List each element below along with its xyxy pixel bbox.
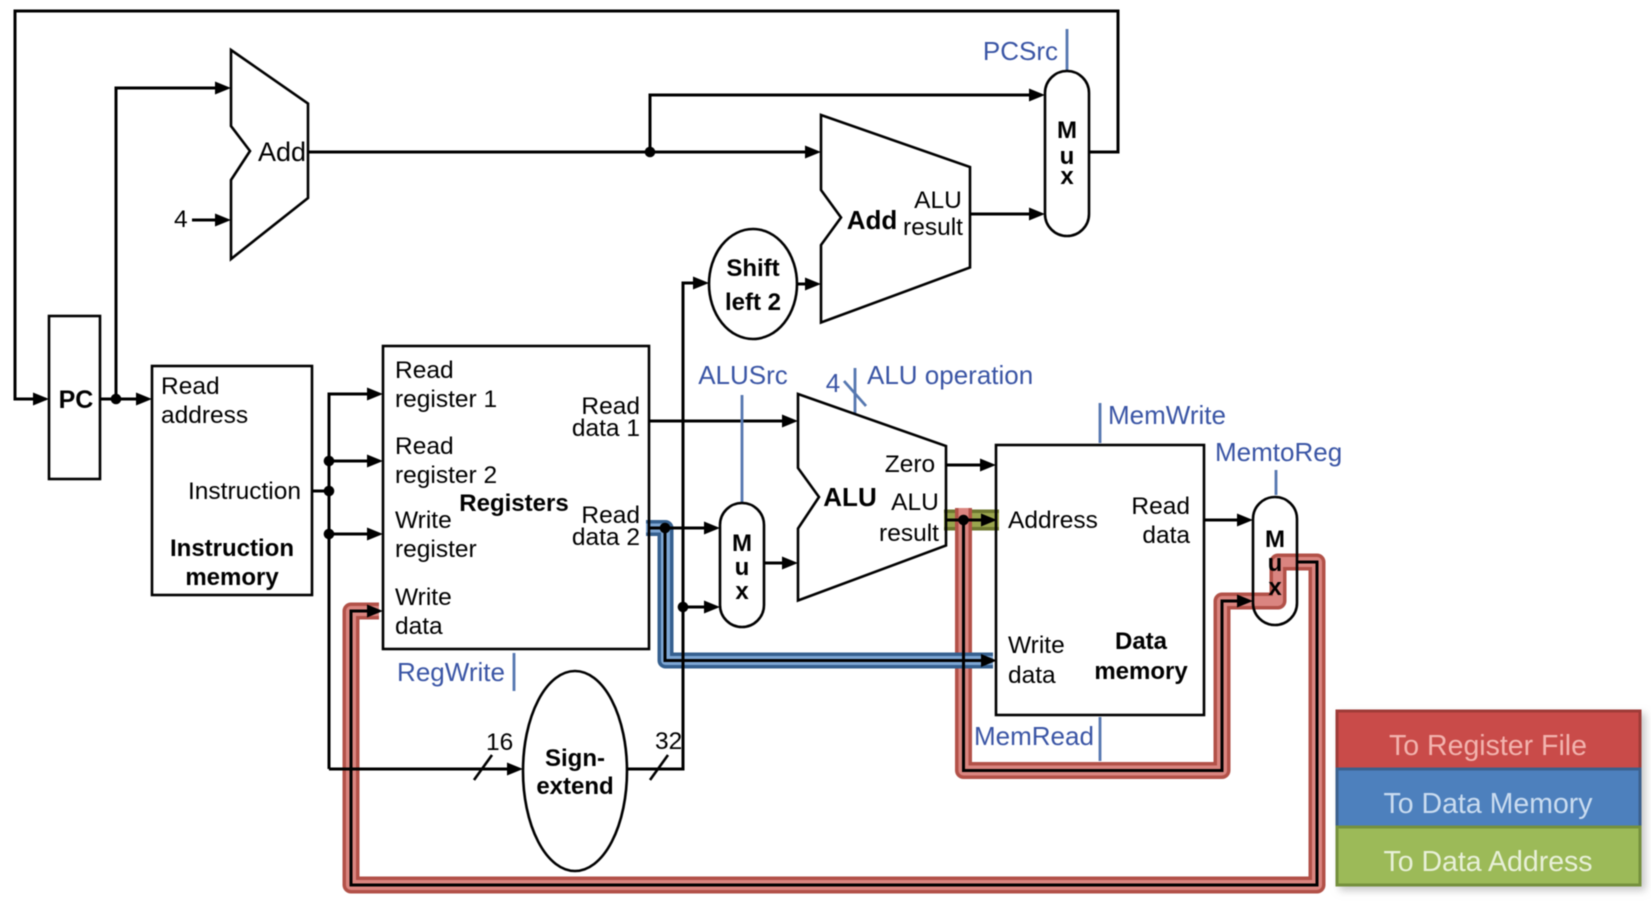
svg-text:MemWrite: MemWrite	[1108, 400, 1226, 430]
svg-text:register 1: register 1	[395, 386, 497, 413]
svg-text:Address: Address	[1008, 507, 1098, 534]
svg-text:Read: Read	[161, 373, 220, 400]
svg-text:To Data Address: To Data Address	[1383, 846, 1592, 878]
svg-text:ALU: ALU	[914, 187, 962, 214]
svg-text:To Data Memory: To Data Memory	[1383, 788, 1593, 820]
svg-text:4: 4	[826, 368, 840, 398]
svg-text:ALU: ALU	[823, 482, 876, 512]
svg-text:Sign-: Sign-	[545, 745, 605, 772]
svg-text:address: address	[161, 402, 248, 429]
svg-text:u: u	[735, 554, 750, 581]
svg-text:left 2: left 2	[725, 289, 781, 316]
svg-text:MemRead: MemRead	[974, 721, 1094, 751]
svg-text:PC: PC	[59, 386, 94, 414]
svg-text:Read: Read	[395, 433, 454, 460]
svg-text:32: 32	[655, 728, 682, 755]
svg-text:ALUSrc: ALUSrc	[698, 360, 788, 390]
svg-text:M: M	[1057, 117, 1077, 144]
svg-text:data: data	[1142, 522, 1190, 549]
svg-text:result: result	[903, 214, 963, 241]
svg-text:x: x	[735, 578, 749, 605]
svg-text:x: x	[1060, 163, 1074, 190]
svg-text:Shift: Shift	[726, 255, 779, 282]
svg-text:Write: Write	[395, 507, 452, 534]
svg-text:register: register	[395, 536, 477, 563]
svg-text:Add: Add	[847, 205, 898, 235]
svg-text:Registers: Registers	[459, 490, 568, 517]
svg-text:data 2: data 2	[572, 524, 640, 551]
svg-text:register 2: register 2	[395, 462, 497, 489]
svg-text:Write: Write	[1008, 632, 1065, 659]
svg-text:PCSrc: PCSrc	[983, 36, 1058, 66]
svg-text:ALU: ALU	[891, 489, 939, 516]
svg-text:Instruction: Instruction	[188, 478, 301, 505]
svg-text:Instruction: Instruction	[170, 535, 294, 562]
svg-text:To Register File: To Register File	[1389, 730, 1587, 762]
svg-text:data: data	[395, 613, 443, 640]
svg-text:M: M	[1265, 526, 1285, 553]
svg-text:M: M	[732, 530, 752, 557]
svg-text:Zero: Zero	[885, 451, 935, 478]
svg-text:16: 16	[486, 729, 513, 756]
svg-text:memory: memory	[185, 564, 279, 591]
svg-text:Add: Add	[258, 137, 306, 167]
svg-text:Read: Read	[395, 357, 454, 384]
svg-text:ALU operation: ALU operation	[867, 360, 1033, 390]
svg-text:RegWrite: RegWrite	[397, 657, 505, 687]
svg-text:Write: Write	[395, 584, 452, 611]
svg-text:Data: Data	[1115, 628, 1168, 655]
svg-text:Read: Read	[1131, 493, 1190, 520]
svg-text:data: data	[1008, 662, 1056, 689]
svg-text:result: result	[879, 520, 939, 547]
svg-text:MemtoReg: MemtoReg	[1215, 437, 1342, 467]
svg-text:4: 4	[174, 206, 188, 233]
svg-text:data 1: data 1	[572, 415, 640, 442]
svg-text:extend: extend	[536, 773, 613, 800]
svg-text:memory: memory	[1094, 658, 1188, 685]
